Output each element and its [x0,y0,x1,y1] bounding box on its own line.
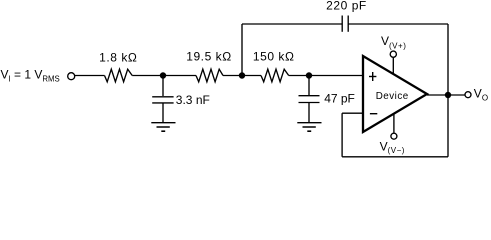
svg-text:220 pF: 220 pF [326,0,367,12]
terminal V(V+) [390,51,396,57]
wire node A down to C1 [162,76,164,97]
junction output node [445,92,451,98]
ground (C2) [297,123,321,132]
svg-text:VI = 1 VRMS: VI = 1 VRMS [1,68,60,84]
wire op-amp output to output node [427,94,448,96]
wire R3 to op-amp noninverting input through node C [289,75,363,77]
resistor 1.8 kOhm [105,69,133,82]
terminal V(V-) [391,133,397,139]
op-amp inverting pin - [370,113,377,115]
ground (C1) [151,123,175,132]
wire node C down to C2 [308,76,310,96]
resistor 19.5 kOhm [196,69,223,82]
wire top rail left segment [242,23,342,25]
svg-text:47 pF: 47 pF [324,91,355,105]
capacitor 3.3 nF [152,97,173,103]
svg-text:3.3 nF: 3.3 nF [176,93,210,107]
wire C1 to ground [162,103,164,122]
junction node B [239,72,245,78]
svg-text:VO: VO [474,86,488,102]
wire R1 to R2 through node A [132,75,196,77]
capacitor 220 pF [342,16,348,32]
wire output node to output terminal [448,94,465,96]
input terminal VI [68,73,75,80]
wire right rail down to output node [447,24,449,95]
svg-text:V(V−): V(V−) [380,139,405,155]
wire bottom rail up to inverting input level [341,113,343,157]
wire top rail right segment [348,23,448,25]
capacitor 47 pF [299,96,320,103]
svg-text:150 kΩ: 150 kΩ [253,50,295,64]
op-amp U1 Device [363,56,427,132]
wire right rail output node down to bottom rail [447,95,449,157]
wire to op-amp inverting input [342,112,364,114]
svg-text:19.5 kΩ: 19.5 kΩ [186,49,232,63]
resistor 150 kOhm [261,69,289,82]
wire node B up to feedback capacitor [241,24,243,76]
wire positive supply pin [392,58,394,75]
wire bottom rail [342,156,448,158]
svg-text:Device: Device [376,91,409,102]
svg-text:1.8 kΩ: 1.8 kΩ [99,51,137,65]
junction node C [306,72,312,78]
wire input terminal to R1 [75,75,105,77]
op-amp noninverting pin + [369,72,376,81]
junction node A [160,72,166,78]
output terminal VO [465,92,471,98]
wire negative supply pin [393,114,395,133]
wire R2 to R3 through node B [223,75,261,77]
svg-text:V(V+): V(V+) [381,34,406,50]
wire C2 to ground [308,103,310,123]
